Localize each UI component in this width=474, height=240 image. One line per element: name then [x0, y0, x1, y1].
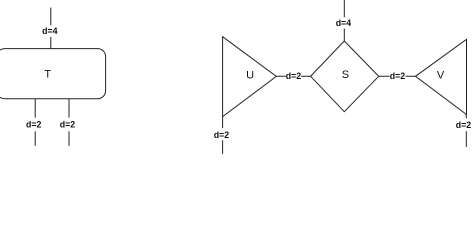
wire: top leg of S: [343, 0, 345, 41]
svg-text:d=2: d=2: [390, 71, 405, 82]
wire: U to S horizontal edge: [276, 75, 310, 77]
svg-text:V: V: [437, 70, 445, 82]
svg-text:d=4: d=4: [42, 26, 58, 37]
wire: bottom leg of U: [222, 117, 224, 154]
wire: bottom leg of V: [465, 115, 467, 148]
node V: right triangle tensor: [416, 39, 467, 114]
svg-text:d=2: d=2: [26, 119, 41, 130]
svg-text:d=2: d=2: [214, 130, 229, 141]
svg-text:d=2: d=2: [60, 119, 75, 130]
svg-text:T: T: [44, 69, 51, 81]
svg-text:d=2: d=2: [456, 120, 471, 131]
svg-text:U: U: [246, 70, 254, 82]
wire: top leg of T: [50, 8, 52, 49]
wire: S to V horizontal edge: [379, 75, 416, 77]
wire: bottom-right leg of T: [68, 99, 70, 146]
node U: left triangle tensor: [223, 37, 277, 117]
svg-text:d=4: d=4: [336, 18, 352, 29]
svg-text:S: S: [342, 69, 349, 81]
node S: diamond tensor: [311, 41, 379, 112]
wire: bottom-left leg of T: [34, 99, 36, 146]
node T: rounded rectangle tensor: [0, 49, 106, 99]
svg-text:d=2: d=2: [286, 71, 301, 82]
